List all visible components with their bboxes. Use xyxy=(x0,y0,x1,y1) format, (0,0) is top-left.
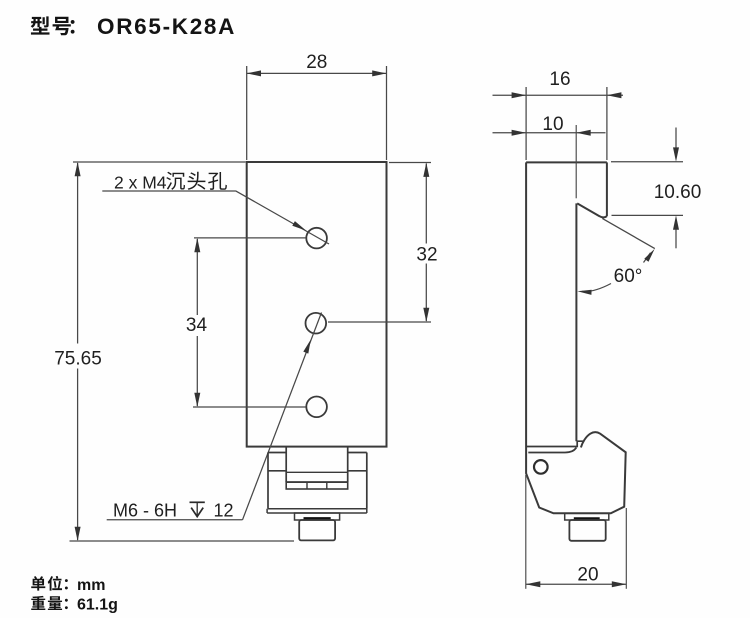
title glyph xing xyxy=(31,16,50,34)
dimension 28 extension lines xyxy=(247,66,387,160)
label 2xM4 underline xyxy=(102,190,235,192)
label M6 leader arrow xyxy=(303,340,311,354)
dimension 16 arrow right xyxy=(607,92,622,98)
dimension 34 line xyxy=(196,239,198,406)
bracket teeth divider 2 xyxy=(326,482,328,489)
svg-text:28: 28 xyxy=(306,52,327,73)
bracket inner wall right xyxy=(347,447,349,482)
washer front xyxy=(295,513,340,520)
label glyph chen xyxy=(166,172,185,190)
label glyph tou xyxy=(188,172,206,190)
side view inner vertical edge xyxy=(575,203,577,441)
bracket base plate xyxy=(267,509,367,513)
dimension 75.65 extension bottom xyxy=(70,540,295,542)
dimension 32 arrow up xyxy=(423,163,429,177)
nut front xyxy=(299,520,335,540)
dimension 32 line xyxy=(425,164,427,322)
bracket ear top right xyxy=(348,452,367,454)
dimension 34 extension bottom xyxy=(193,406,306,408)
svg-text:20: 20 xyxy=(577,564,598,585)
side view chamfer edge xyxy=(577,203,607,217)
dimension 16 extension lines xyxy=(526,87,607,160)
dimension 75.65 arrow up xyxy=(75,162,81,176)
bracket channel mid line xyxy=(286,471,348,473)
dimension 75.65 arrow down xyxy=(75,527,81,541)
title colon xyxy=(71,20,75,34)
svg-text:10: 10 xyxy=(542,114,563,135)
bracket teeth band xyxy=(286,482,348,489)
bracket outer wall left xyxy=(267,453,269,509)
depth symbol bar xyxy=(190,501,205,503)
bracket inner wall left xyxy=(285,447,287,482)
svg-text:10.60: 10.60 xyxy=(654,182,702,203)
svg-text:2 x M4: 2 x M4 xyxy=(114,173,167,193)
dimension 10 arrow left xyxy=(512,130,526,136)
dimension 10 line xyxy=(493,132,606,134)
bracket teeth divider 1 xyxy=(306,482,308,489)
weight glyph liang xyxy=(48,596,62,610)
dimension 60 arrow at edge xyxy=(577,290,591,295)
dimension 20 arrow right xyxy=(612,581,627,587)
svg-text:61.1g: 61.1g xyxy=(77,597,118,614)
bracket shelf right xyxy=(348,470,367,472)
hole top M4 xyxy=(306,228,327,249)
clamp jaw top line xyxy=(528,448,576,453)
label 2xM4 leader line xyxy=(236,191,330,244)
hole middle M6 xyxy=(306,313,327,334)
dimension 28 arrow left xyxy=(247,70,261,76)
dimension 32 extension top xyxy=(389,162,431,164)
bracket shelf left xyxy=(268,470,286,472)
svg-text:mm: mm xyxy=(77,577,105,594)
dimension 20 extension left xyxy=(525,475,527,589)
dimension 34 arrow up xyxy=(194,238,200,252)
dimension 10 arrow right xyxy=(576,130,591,136)
dimension 34 arrow down xyxy=(194,393,200,407)
bracket channel floor xyxy=(286,481,348,483)
unit glyph wei xyxy=(48,576,62,591)
unit colon xyxy=(65,579,68,589)
dimension 16 line xyxy=(493,94,624,96)
side view top edge xyxy=(526,161,607,163)
weight colon xyxy=(65,599,68,609)
weight glyph zhong xyxy=(31,596,45,610)
svg-text:60°: 60° xyxy=(614,266,643,287)
depth symbol stem xyxy=(196,502,198,515)
dimension 10 extension line xyxy=(575,125,577,198)
dimension 60 arrow at chamfer xyxy=(644,249,654,262)
bracket outer wall right xyxy=(366,453,368,509)
dimension 28 arrow right xyxy=(372,70,386,76)
chamfer extension line xyxy=(602,218,655,248)
label 2xM4 leader arrow xyxy=(292,221,306,231)
dimension 10.60 arrow down xyxy=(673,147,679,161)
dimension 20 extension right xyxy=(625,508,627,589)
front view plate outline xyxy=(247,162,387,447)
clamp step notch xyxy=(577,441,583,447)
washer side xyxy=(565,513,609,520)
label M6 underline xyxy=(107,519,243,521)
svg-text:12: 12 xyxy=(214,501,234,521)
dimension 32 extension bottom xyxy=(328,321,431,323)
dimension 10.60 extension top xyxy=(611,161,683,163)
depth symbol arrowhead vee xyxy=(191,508,203,517)
label M6 leader line xyxy=(243,313,322,520)
hole bottom M4 xyxy=(306,397,327,418)
dimension 60 leader to chamfer xyxy=(644,253,651,263)
washer front dark band xyxy=(304,517,331,520)
dimension 34 extension top xyxy=(194,237,306,239)
dimension 10.60 extension bottom xyxy=(612,214,684,216)
svg-text:OR65-K28A: OR65-K28A xyxy=(97,14,236,39)
dimension 60 arc xyxy=(582,284,611,292)
bracket ear top left xyxy=(268,452,286,454)
dimension 28 line xyxy=(247,72,387,74)
dimension 16 arrow left xyxy=(512,92,526,98)
dimension 10.60 upper leader xyxy=(675,128,677,149)
dimension 20 arrow left xyxy=(526,581,541,587)
label glyph kong xyxy=(208,172,227,190)
unit glyph dan xyxy=(31,576,45,590)
clamp screw hole xyxy=(534,460,548,474)
dimension 75.65 line xyxy=(77,163,79,540)
nut side xyxy=(569,520,605,541)
svg-text:34: 34 xyxy=(186,315,208,336)
washer side dark band xyxy=(574,517,600,520)
svg-text:75.65: 75.65 xyxy=(54,349,102,370)
svg-text:16: 16 xyxy=(549,69,570,90)
dimension 10.60 lower leader xyxy=(675,230,677,249)
dimension 32 arrow down xyxy=(423,308,429,322)
title glyph hao xyxy=(53,17,71,35)
side view right edge xyxy=(606,162,608,216)
dimension 75.65 extension top xyxy=(73,161,246,163)
dimension 20 line xyxy=(526,583,627,585)
svg-text:32: 32 xyxy=(416,244,437,265)
side view leg bottom edge xyxy=(526,446,577,448)
side view left edge xyxy=(525,162,527,446)
svg-text:M6 - 6H: M6 - 6H xyxy=(113,501,177,521)
clamp body outline side view xyxy=(526,432,626,513)
dimension 10.60 arrow up xyxy=(673,215,679,229)
